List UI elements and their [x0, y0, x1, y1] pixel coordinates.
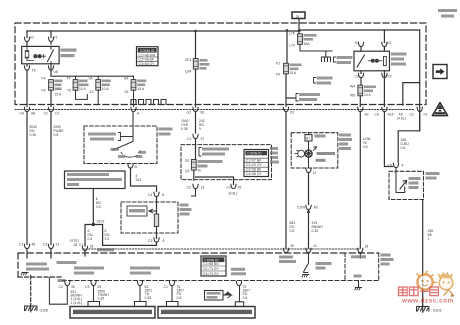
ECM ignition 1 entry — [358, 248, 363, 252]
comb connector row on fuse box edge — [131, 100, 166, 105]
svg-text:Z3: Z3 — [90, 90, 94, 94]
svg-text:C3: C3 — [85, 285, 89, 289]
MIL lamp — [305, 150, 312, 157]
svg-text:C3=54 GY: C3=54 GY — [139, 62, 156, 66]
wire C209 down — [308, 210, 310, 249]
relay K1 switch blade — [48, 46, 54, 66]
svg-text:C4=58 GY: C4=58 GY — [246, 172, 263, 176]
connector C2/13 bottom — [48, 244, 53, 248]
svg-text:C2: C2 — [55, 112, 59, 116]
svg-text:A16: A16 — [388, 113, 394, 117]
battery positive voltage label — [283, 248, 288, 252]
svg-text:63: 63 — [98, 285, 102, 289]
svg-text:C3=58 BK: C3=58 BK — [246, 168, 262, 172]
inline connector C209 A6 — [306, 205, 311, 209]
relay K2 coil — [369, 60, 372, 62]
watermark text weiku — [399, 287, 439, 296]
fuse F3 injector — [97, 76, 99, 79]
ignition switch dashed box — [84, 126, 157, 164]
svg-text:C1: C1 — [19, 243, 23, 247]
connector C1/76 mid — [169, 281, 174, 285]
wire Class2 into box2 — [235, 286, 243, 307]
svg-text:18: 18 — [90, 245, 94, 249]
relay K1 pin U1 — [24, 37, 29, 41]
wire C3 stub to splice branch — [156, 242, 158, 245]
relay K2 top stubs — [361, 30, 384, 51]
wire C1 fork into callout box2 — [167, 286, 179, 307]
ECM ground word — [354, 275, 362, 278]
harness dist note 1 — [334, 57, 336, 62]
ISM dashed box — [389, 171, 424, 199]
connector A2 — [358, 107, 363, 111]
svg-text:C4: C4 — [148, 193, 152, 197]
svg-text:P2: P2 — [388, 75, 392, 79]
svg-text:0.8: 0.8 — [363, 145, 368, 149]
fuse F2 IGN — [75, 76, 77, 79]
IPC label right — [339, 134, 351, 137]
fuse F4 cruise — [133, 76, 135, 79]
relay K1 pin T1 — [48, 37, 53, 41]
svg-text:T5: T5 — [67, 89, 71, 93]
steering system label — [26, 263, 47, 266]
callout box1 data link left — [70, 307, 155, 319]
connector C5/4 — [393, 163, 398, 167]
ground G108 — [25, 304, 37, 312]
GMLAN bus label mid — [130, 267, 160, 270]
svg-text:C5: C5 — [388, 164, 392, 168]
fuse BATT2 41 — [195, 31, 197, 58]
connector C1/18 bottom — [82, 246, 87, 250]
svg-text:13: 13 — [56, 243, 60, 247]
second dashed line — [62, 280, 379, 282]
svg-text:0.8: 0.8 — [243, 296, 248, 300]
wire S102 right branch — [93, 225, 156, 246]
svg-text:G2: G2 — [187, 111, 192, 115]
relay K1 coil assembly — [25, 46, 33, 60]
IP ignition fuse — [191, 160, 196, 171]
ECM TCM fuse wire — [286, 30, 288, 63]
svg-text:C3=73 GY: C3=73 GY — [203, 272, 220, 276]
connector U4/A8 on fuse box edge — [24, 107, 29, 111]
svg-text:W5: W5 — [350, 94, 355, 98]
wire: T5 down to connector U4 — [26, 64, 28, 107]
svg-text:C1: C1 — [164, 285, 168, 289]
svg-text:A8: A8 — [31, 112, 35, 116]
svg-text:1a: 1a — [296, 14, 300, 18]
label: engine room fuse box (top right) — [438, 9, 457, 12]
svg-text:C6: C6 — [375, 113, 379, 117]
jumper loop under fuse F2 — [76, 90, 88, 99]
svg-text:0.35: 0.35 — [312, 229, 319, 233]
connector 12 below IPC — [306, 168, 311, 172]
relay K1 pin U8 — [48, 66, 53, 70]
svg-text:C2: C2 — [187, 186, 191, 190]
svg-text:0.8: 0.8 — [401, 146, 406, 150]
svg-text:U4: U4 — [20, 112, 24, 116]
harness dist note 2 — [314, 78, 316, 84]
wire TCM box down to splice S102 — [92, 189, 94, 224]
wire C4 through BCM — [156, 197, 158, 215]
svg-text:0.35: 0.35 — [98, 297, 105, 301]
CONN ID table 1 — [137, 47, 159, 66]
svg-text:F6: F6 — [276, 73, 280, 77]
svg-text:3.5: 3.5 — [105, 237, 110, 241]
svg-text:15 A: 15 A — [137, 87, 145, 91]
wire below BATT2 fuse to G2 connector — [195, 69, 197, 107]
relay K1 pin T5 — [24, 66, 29, 70]
wire: bus drop to right relay feed — [403, 30, 420, 105]
wire: A2 ignition 1 down to ECM — [359, 112, 361, 249]
svg-text:8: 8 — [162, 193, 164, 197]
svg-text:12: 12 — [313, 171, 317, 175]
svg-text:12: 12 — [313, 244, 317, 248]
svg-text:B+: B+ — [306, 137, 310, 141]
svg-text:30: 30 — [290, 244, 294, 248]
svg-text:4: 4 — [402, 164, 404, 168]
BCM label right of table — [270, 147, 278, 150]
wire to C209 — [308, 173, 310, 205]
dashed ground drop to G108 — [30, 276, 32, 305]
wire stubs below bottom connectors — [27, 249, 85, 259]
relay K2 pin U1 — [382, 42, 387, 46]
instrument panel fuse block dashed box — [181, 145, 272, 180]
wire: D2 main down to battery splice — [285, 112, 287, 249]
svg-text:D2: D2 — [290, 111, 294, 115]
MIL indicator backlight cloud — [295, 150, 305, 157]
svg-text:1: 1 — [428, 237, 430, 241]
svg-text:S2: S2 — [185, 159, 189, 163]
connector C3/63 lower — [91, 281, 96, 285]
svg-text:S4: S4 — [124, 77, 128, 81]
ISM internal coil wire — [396, 168, 405, 193]
svg-text:Q34: Q34 — [185, 70, 192, 74]
connector C1/C2 — [48, 107, 53, 111]
wire: U8 to fuse bus — [51, 66, 134, 76]
svg-text:15 A: 15 A — [290, 71, 298, 75]
wire relay top stubs — [27, 31, 51, 46]
svg-text:F4: F4 — [42, 77, 46, 81]
harness dist note 3 — [296, 94, 298, 102]
svg-text:U1: U1 — [30, 36, 34, 40]
svg-text:U8: U8 — [54, 70, 58, 74]
bottom left dashed box bottom — [18, 276, 62, 278]
connector C4/8 — [154, 192, 159, 196]
svg-text:C2=73 GY: C2=73 GY — [203, 267, 220, 271]
connector C3/6 below BCM — [154, 238, 159, 242]
connector C1/26 below IP — [231, 184, 236, 188]
svg-text:(4.6L): (4.6L) — [70, 239, 79, 243]
svg-text:W4: W4 — [350, 85, 355, 89]
CONN ID table 2 — [244, 150, 269, 177]
watermark mascot 1 — [417, 271, 436, 289]
fuse TRAN 2 — [358, 85, 363, 96]
svg-text:37: 37 — [201, 137, 205, 141]
relay K2 pin K3 — [358, 42, 363, 46]
wire: main battery bus — [27, 30, 420, 31]
ECM case ground — [358, 281, 360, 287]
wire: C2/F1 jog down to C5 — [398, 112, 420, 163]
svg-text:S102: S102 — [97, 220, 105, 224]
fuse F1 ECM BATT — [49, 80, 54, 91]
svg-text:G108: G108 — [40, 309, 48, 313]
dist note inside IP box — [199, 148, 201, 157]
svg-text:48: 48 — [32, 243, 36, 247]
svg-text:9: 9 — [199, 127, 201, 131]
connector B below ignition — [128, 164, 133, 168]
lower busbar dashed line — [18, 253, 379, 277]
svg-text:C1=07 BK: C1=07 BK — [246, 159, 262, 163]
svg-text:0.5: 0.5 — [290, 229, 295, 233]
ISM label right — [426, 172, 440, 175]
svg-text:(4.6L): (4.6L) — [229, 192, 238, 196]
svg-text:T4: T4 — [67, 77, 71, 81]
svg-text:10 A: 10 A — [102, 87, 110, 91]
connector C2/13 below IP — [193, 184, 198, 188]
connector 75 Class2 — [236, 281, 241, 285]
svg-text:L75: L75 — [289, 32, 295, 36]
connector G2/B1 — [193, 107, 198, 111]
fuse block lower dotted edge — [15, 109, 415, 111]
svg-text:C1: C1 — [79, 243, 83, 247]
ECM dashed box — [345, 253, 379, 280]
wire below fuse 38 — [300, 44, 332, 56]
powertrain relay K1 box — [22, 46, 59, 63]
wire into IP fuse box — [195, 139, 197, 160]
svg-text:C2: C2 — [410, 113, 414, 117]
svg-text:G103: G103 — [433, 309, 441, 313]
svg-text:B1: B1 — [201, 111, 205, 115]
svg-text:10 A: 10 A — [364, 93, 372, 97]
wire from 1a tab to bus — [298, 19, 300, 34]
two-prong connector symbol — [322, 57, 331, 62]
svg-text:S1: S1 — [125, 90, 129, 94]
wire B to C4 — [131, 168, 157, 192]
BCM dashed box — [121, 202, 178, 233]
wire: left feed 5040 — [26, 112, 28, 245]
wire MIL down out of IPC — [308, 157, 310, 168]
ISM actuator arrow — [400, 181, 407, 190]
svg-text:28: 28 — [74, 243, 78, 247]
wire below fuse F3 — [97, 90, 99, 104]
svg-text:35: 35 — [71, 285, 75, 289]
fuse ECM/TCM — [284, 63, 289, 74]
connector D2 — [283, 107, 288, 111]
data link plug box — [205, 291, 224, 301]
svg-text:U1: U1 — [387, 41, 391, 45]
wire C3 fork into callout — [88, 286, 100, 307]
svg-text:SF3: SF3 — [185, 58, 191, 62]
svg-text:T1: T1 — [54, 36, 58, 40]
connector C6/A16 — [382, 107, 387, 111]
ignition 1 voltage label — [57, 261, 77, 264]
svg-text:C2=20 GY: C2=20 GY — [246, 163, 263, 167]
svg-text:C2: C2 — [43, 243, 47, 247]
underhood fuse block dashed enclosure — [15, 23, 426, 105]
svg-text:C3: C3 — [355, 75, 359, 79]
svg-text:304: 304 — [136, 178, 142, 182]
lower busbar dotted line — [83, 248, 359, 250]
svg-text:C1: C1 — [187, 137, 191, 141]
svg-text:0.5: 0.5 — [88, 237, 93, 241]
CONN ID table 3 — [201, 256, 226, 276]
ECM label right — [381, 254, 391, 257]
svg-text:15 A: 15 A — [55, 93, 63, 97]
svg-text:5.35: 5.35 — [181, 127, 188, 131]
svg-text:L74: L74 — [289, 44, 295, 48]
svg-text:C3: C3 — [148, 239, 152, 243]
wire: run crank feed down to C2/F1 connector — [419, 83, 421, 131]
data link plug arrow — [224, 292, 232, 298]
svg-text:0.8: 0.8 — [177, 296, 182, 300]
svg-text:K3: K3 — [355, 41, 359, 45]
fuel pump relay control switch — [306, 248, 311, 252]
fuse MAIN 38 (L75/L74) — [298, 34, 303, 45]
svg-text:26: 26 — [238, 186, 242, 190]
svg-text:0.8: 0.8 — [54, 133, 59, 137]
svg-text:C1: C1 — [227, 186, 231, 190]
svg-text:www.dzsc.com: www.dzsc.com — [401, 298, 454, 305]
svg-text:0.35: 0.35 — [30, 133, 37, 137]
BCM label (right) — [180, 204, 189, 207]
svg-text:18: 18 — [365, 245, 369, 249]
splice S102 — [92, 223, 95, 226]
wire: left feed 5290 — [50, 112, 52, 245]
connector C1/48 bottom — [24, 244, 29, 248]
svg-text:C2: C2 — [59, 285, 63, 289]
svg-text:0.35: 0.35 — [145, 296, 152, 300]
relay K2 switch blade — [357, 55, 365, 67]
svg-text:A6: A6 — [314, 206, 318, 210]
relay K1 label text — [61, 49, 77, 52]
svg-text:6: 6 — [163, 239, 165, 243]
mini ground in box — [21, 273, 28, 275]
IPC cluster dashed box — [291, 133, 338, 168]
relay K2 label — [391, 53, 407, 56]
svg-text:7b: 7b — [198, 169, 202, 173]
svg-text:2A: 2A — [89, 77, 94, 81]
wire S102 left branch down — [85, 225, 93, 247]
B+ box in IPC — [308, 133, 310, 135]
svg-text:Q1: Q1 — [185, 169, 190, 173]
connector 63 mid — [137, 281, 142, 285]
svg-text:13: 13 — [201, 186, 205, 190]
svg-text:A2: A2 — [365, 113, 369, 117]
dist note inside ignition box — [88, 133, 116, 136]
connector C1/37 — [193, 134, 198, 138]
relay K2 pin P2 — [382, 73, 387, 77]
wire below IP fuse — [194, 170, 234, 184]
wire below fuse F1 — [50, 90, 52, 106]
ignition switch blade — [113, 112, 133, 151]
Class 2 serial data label — [231, 268, 245, 271]
svg-text:30A: 30A — [304, 42, 311, 46]
1a fusebox tab — [292, 12, 305, 19]
svg-text:C1: C1 — [44, 112, 48, 116]
battery voltage box inside BCM — [127, 206, 147, 216]
svg-text:10 A: 10 A — [79, 87, 87, 91]
svg-text:(4.6L): (4.6L) — [397, 117, 406, 121]
wire C3 to TRAN fuse — [360, 71, 362, 86]
connector A ignition feed — [131, 107, 136, 111]
GMLAN+ label — [74, 267, 104, 270]
svg-text:F6: F6 — [42, 89, 46, 93]
svg-text:T5: T5 — [32, 69, 36, 73]
svg-text:F1: F1 — [424, 113, 428, 117]
svg-text:C1=68 BN: C1=68 BN — [203, 262, 219, 266]
svg-text:2 (4.0L): 2 (4.0L) — [71, 301, 83, 305]
svg-text:C209: C209 — [297, 206, 305, 210]
ground G103 — [417, 305, 429, 313]
wire below TRAN fuse — [360, 71, 384, 107]
wire 63 fork into callout box1 — [135, 286, 147, 307]
sense resistor in BCM — [154, 214, 158, 227]
wire ISM down to ground G103 — [422, 200, 424, 307]
wire below fuse F4 — [133, 90, 135, 106]
svg-text:F2: F2 — [276, 62, 280, 66]
off-page arrow box — [433, 65, 447, 79]
ground word label — [58, 279, 66, 282]
connector C2/F1 — [417, 107, 422, 111]
relay K2 pin C3 — [358, 73, 363, 77]
wire: A16 down to C5 — [384, 112, 392, 167]
svg-text:0.8: 0.8 — [96, 205, 101, 209]
TCM assembly callout box — [65, 171, 126, 189]
ignition switch label (outside right) — [159, 128, 173, 131]
switch positions arc — [125, 155, 138, 157]
connector C2/35 lower — [65, 281, 70, 285]
watermark mascot 2 — [438, 273, 455, 298]
wire B+ to MIL lamp — [308, 141, 310, 150]
warning triangle — [432, 103, 447, 116]
svg-text:CONN ID: CONN ID — [247, 152, 262, 156]
switch position labels — [111, 148, 120, 151]
wire below ECM/TCM fuse with branch — [286, 74, 295, 107]
callout box2 data link right — [158, 307, 255, 319]
run/crank relay K2 box — [354, 51, 390, 71]
svg-text:CONN ID: CONN ID — [140, 49, 155, 53]
wire: G2 to C1 — [195, 112, 197, 134]
arrow into battery voltage box — [149, 209, 157, 212]
